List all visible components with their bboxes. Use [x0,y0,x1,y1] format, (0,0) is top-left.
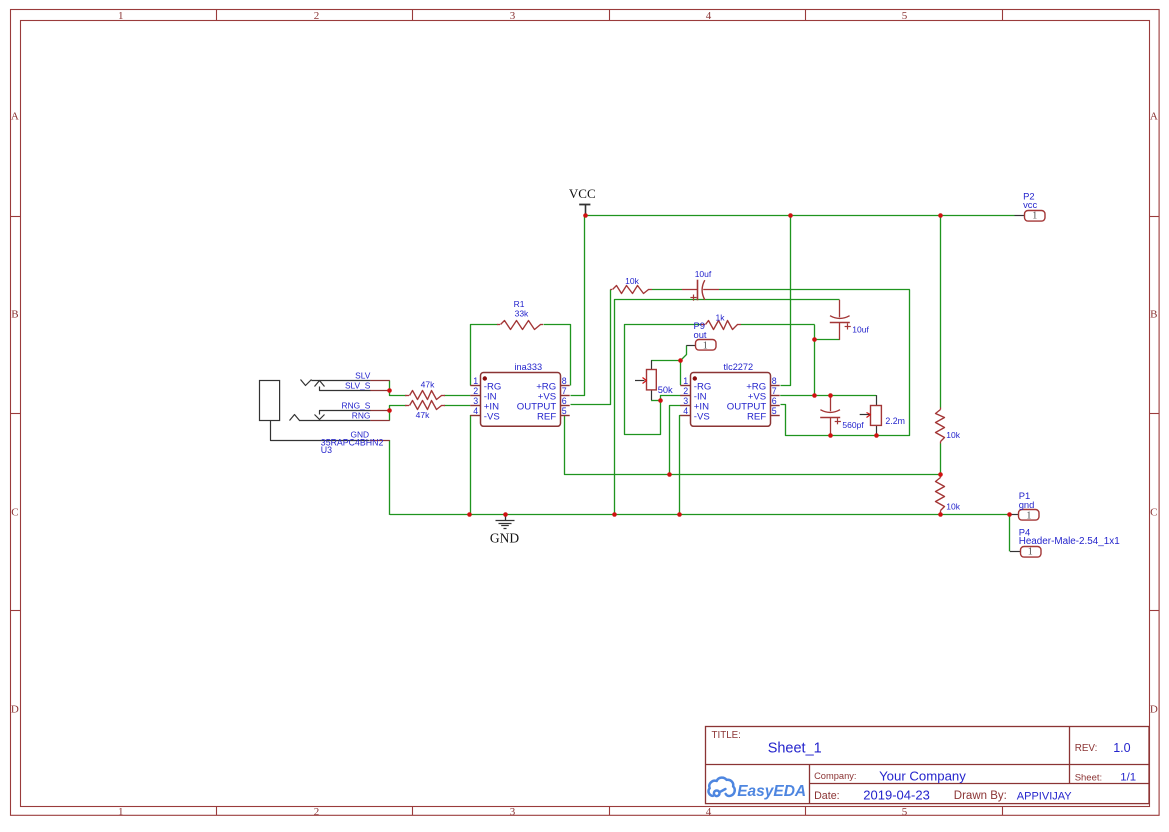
svg-text:SLV: SLV [355,370,371,380]
svg-text:vcc: vcc [1023,199,1037,210]
svg-text:4: 4 [706,10,712,22]
svg-text:REV:: REV: [1075,743,1098,754]
svg-text:Date:: Date: [814,790,840,802]
svg-text:Company:: Company: [814,771,856,781]
svg-text:TITLE:: TITLE: [712,730,741,741]
svg-text:1: 1 [1028,547,1033,558]
svg-text:1/1: 1/1 [1120,771,1136,783]
svg-text:50k: 50k [658,385,673,395]
svg-text:U3: U3 [321,445,332,455]
svg-text:33k: 33k [515,308,529,318]
svg-text:1.0: 1.0 [1113,741,1130,755]
svg-text:10k: 10k [946,430,960,440]
svg-text:2019-04-23: 2019-04-23 [863,787,930,802]
svg-text:1: 1 [703,341,708,352]
svg-text:-VS: -VS [694,412,710,423]
svg-text:10k: 10k [625,276,639,286]
svg-text:2: 2 [473,386,478,396]
svg-text:gnd: gnd [1019,499,1035,510]
svg-text:3: 3 [683,396,688,406]
svg-text:A: A [1150,111,1158,123]
svg-text:3: 3 [510,10,516,22]
svg-text:2: 2 [314,10,320,22]
svg-text:EasyEDA: EasyEDA [737,783,806,800]
svg-text:3: 3 [510,806,516,818]
svg-text:C: C [11,507,18,519]
svg-text:8: 8 [772,376,777,386]
svg-text:1: 1 [473,376,478,386]
svg-text:B: B [1150,309,1157,321]
svg-text:7: 7 [772,386,777,396]
svg-text:RNG_S: RNG_S [342,401,371,411]
svg-text:1: 1 [1032,211,1037,222]
svg-text:RNG: RNG [352,411,371,421]
svg-text:8: 8 [562,376,567,386]
svg-text:10uf: 10uf [695,269,712,279]
svg-text:D: D [1150,704,1158,716]
svg-text:C: C [1150,507,1157,519]
svg-text:VCC: VCC [569,186,596,201]
svg-text:6: 6 [562,396,567,406]
svg-text:1: 1 [1026,510,1031,521]
svg-text:tlc2272: tlc2272 [724,362,754,372]
svg-text:5: 5 [562,406,567,416]
svg-text:Sheet:: Sheet: [1075,772,1102,783]
svg-text:5: 5 [902,806,908,818]
svg-text:2.2m: 2.2m [885,416,905,426]
svg-text:3: 3 [473,396,478,406]
svg-text:out: out [694,329,707,340]
svg-text:-VS: -VS [484,412,500,423]
svg-text:5: 5 [902,10,908,22]
svg-text:10uf: 10uf [852,325,869,335]
svg-text:Sheet_1: Sheet_1 [768,741,822,757]
svg-text:5: 5 [772,406,777,416]
svg-text:1: 1 [118,806,124,818]
svg-text:APPIVIJAY: APPIVIJAY [1017,790,1072,802]
svg-text:6: 6 [772,396,777,406]
svg-text:Header-Male-2.54_1x1: Header-Male-2.54_1x1 [1019,536,1121,547]
svg-text:Your Company: Your Company [879,769,966,784]
svg-text:D: D [11,704,19,716]
svg-text:Drawn By:: Drawn By: [954,790,1007,802]
svg-text:REF: REF [747,412,766,423]
svg-text:4: 4 [473,406,478,416]
svg-text:REF: REF [537,412,556,423]
svg-text:560pf: 560pf [842,420,864,430]
svg-text:7: 7 [562,386,567,396]
svg-text:1k: 1k [716,312,726,322]
svg-text:10k: 10k [946,501,960,511]
svg-text:A: A [11,111,19,123]
svg-text:4: 4 [706,806,712,818]
svg-text:2: 2 [683,386,688,396]
svg-text:SLV_S: SLV_S [345,380,371,390]
svg-text:2: 2 [314,806,320,818]
svg-text:4: 4 [683,406,688,416]
svg-text:B: B [11,309,18,321]
svg-text:1: 1 [683,376,688,386]
svg-text:GND: GND [490,530,519,545]
svg-text:47k: 47k [416,410,430,420]
svg-text:1: 1 [118,10,124,22]
svg-text:ina333: ina333 [515,362,543,372]
svg-text:47k: 47k [421,380,435,390]
